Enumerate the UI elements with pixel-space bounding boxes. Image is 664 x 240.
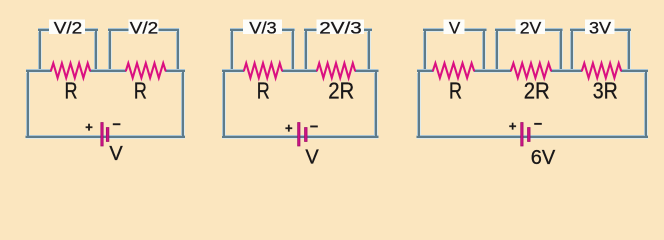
svg-text:V/2: V/2 xyxy=(54,18,83,37)
resistor R1 (circuit 1) xyxy=(51,63,90,78)
wire elbow C2 bracket2 left corner xyxy=(305,29,307,32)
label box V/3 xyxy=(243,20,282,35)
wire elbow C1 bracket2 right corner xyxy=(177,29,179,32)
wire: C2 top wire segment c xyxy=(355,69,379,73)
wire: C2 bracket2 right vertical xyxy=(367,28,371,73)
wire elbow C1 top-right xyxy=(182,70,184,73)
label box V/2 second xyxy=(129,20,159,35)
wire: C3 bracket2 top xyxy=(495,28,563,32)
svg-text:+: + xyxy=(509,118,517,133)
wire: C3 main loop left vertical xyxy=(417,69,421,139)
svg-text:R: R xyxy=(449,78,462,104)
wire: C1 top wire segment c xyxy=(166,69,186,73)
wire: C1 bracket2 left vertical xyxy=(108,28,112,73)
svg-text:V: V xyxy=(449,18,461,37)
wire: C1 bracket1 top xyxy=(38,28,98,32)
wire: C1 top wire segment a xyxy=(26,69,52,73)
wire elbow C2 top-right xyxy=(375,70,377,73)
wire elbow C3 bracket1 left corner xyxy=(424,29,426,32)
wire: C1 bottom wire xyxy=(26,135,186,139)
wire elbow C1 bracket1 left corner xyxy=(39,29,41,32)
wire elbow C3 bottom-left xyxy=(418,135,420,138)
wire elbow C3 bracket3 right corner xyxy=(628,29,630,32)
battery 6V (circuit 3) long plate xyxy=(521,123,523,147)
label box 2V/3 xyxy=(317,20,365,35)
wire: C3 top wire segment b xyxy=(474,69,511,73)
wire elbow C3 bracket2 left corner xyxy=(496,29,498,32)
wire: C1 main loop left vertical xyxy=(26,69,30,139)
wire: C2 top wire segment a xyxy=(222,69,244,73)
wire: C3 top wire segment d xyxy=(621,69,648,73)
wire: C3 top wire segment c xyxy=(551,69,582,73)
wire elbow C2 bracket1 left corner xyxy=(231,29,233,32)
battery V (circuit 2) short plate xyxy=(305,128,308,142)
wire elbow C1 bottom-right xyxy=(182,135,184,138)
wire: C2 bottom wire xyxy=(222,135,379,139)
resistor R (circuit 2) xyxy=(244,63,282,78)
wire elbow C1 top-left xyxy=(27,70,29,73)
resistor 3R (circuit 3) xyxy=(582,63,621,78)
wire elbow C3 top-right xyxy=(645,70,647,73)
wire: C3 bottom wire xyxy=(417,135,649,139)
svg-text:V: V xyxy=(109,143,123,165)
battery minus sign (circuit 2) xyxy=(310,126,318,128)
svg-text:+: + xyxy=(285,120,293,135)
wire: C1 bracket2 top xyxy=(108,28,179,32)
battery minus sign (circuit 3) xyxy=(534,123,542,125)
wire elbow C2 top-left xyxy=(223,70,225,73)
label box V/2 first xyxy=(49,20,85,35)
svg-text:R: R xyxy=(257,78,270,104)
wire: C2 bracket1 left vertical xyxy=(230,28,234,73)
wire: C2 bracket2 left vertical xyxy=(304,28,308,73)
wire elbow C3 bottom-right xyxy=(645,135,647,138)
svg-text:2R: 2R xyxy=(524,78,550,104)
battery minus sign (circuit 1) xyxy=(113,123,121,125)
label box 2V xyxy=(516,20,546,35)
wire: C1 bracket2 right vertical xyxy=(176,28,180,73)
wire elbow C3 bracket3 left corner xyxy=(571,29,573,32)
wire: C2 bracket2 top xyxy=(304,28,372,32)
wire: C1 top wire segment b xyxy=(90,69,126,73)
wire: C2 main loop left vertical xyxy=(222,69,226,139)
svg-text:V: V xyxy=(305,147,319,169)
wire: C3 bracket3 left vertical xyxy=(570,28,574,73)
wire elbow C1 bracket2 left corner xyxy=(109,29,111,32)
wire: C3 bracket1 left vertical xyxy=(423,28,427,73)
resistor 2R (circuit 2) xyxy=(317,63,355,78)
resistor 2R (circuit 3) xyxy=(511,63,551,78)
wire: C2 top wire segment b xyxy=(282,69,317,73)
wire: C3 bracket2 left vertical xyxy=(495,28,499,73)
battery V (circuit 1) short plate xyxy=(106,128,109,142)
wire: C3 bracket3 top xyxy=(570,28,631,32)
wire elbow C1 bottom-left xyxy=(27,135,29,138)
svg-text:2V/3: 2V/3 xyxy=(319,18,362,37)
wire elbow C2 bracket1 right corner xyxy=(292,29,294,32)
svg-text:R: R xyxy=(134,78,147,104)
battery 6V (circuit 3) short plate xyxy=(528,128,531,142)
wire elbow C1 bracket1 right corner xyxy=(95,29,97,32)
wire: C2 bracket1 right vertical xyxy=(291,28,295,73)
wire: C3 bracket3 right vertical xyxy=(627,28,631,73)
wire: C1 bracket1 left vertical xyxy=(38,28,42,73)
label box 3V xyxy=(585,20,615,35)
wire: C3 bracket1 right vertical xyxy=(482,28,486,73)
wire elbow C2 bottom-left xyxy=(223,135,225,138)
svg-text:3V: 3V xyxy=(589,18,612,37)
svg-text:+: + xyxy=(85,119,93,134)
wire: C1 bracket1 right vertical xyxy=(94,28,98,73)
wire elbow C3 bracket2 right corner xyxy=(560,29,562,32)
svg-text:2V: 2V xyxy=(520,18,542,37)
wire: C3 bracket1 top xyxy=(423,28,487,32)
svg-text:3R: 3R xyxy=(593,78,618,104)
wire: C2 bracket1 top xyxy=(230,28,295,32)
battery V (circuit 2) long plate xyxy=(298,123,300,147)
svg-text:R: R xyxy=(65,78,78,104)
resistor R2 (circuit 1) xyxy=(126,63,166,78)
wire elbow C2 bottom-right xyxy=(375,135,377,138)
wire elbow C3 top-left xyxy=(418,70,420,73)
wire: C3 main loop right vertical xyxy=(644,69,648,139)
wire: C1 main loop right vertical xyxy=(181,69,185,139)
resistor R (circuit 3) xyxy=(433,63,474,78)
svg-text:V/2: V/2 xyxy=(130,18,159,37)
wire: C2 main loop right vertical xyxy=(374,69,378,139)
wire elbow C3 bracket1 right corner xyxy=(483,29,485,32)
label box V xyxy=(444,20,465,35)
svg-text:2R: 2R xyxy=(328,78,354,104)
battery V (circuit 1) long plate xyxy=(101,123,103,147)
wire: C3 bracket2 right vertical xyxy=(559,28,563,73)
wire elbow C2 bracket2 right corner xyxy=(368,29,370,32)
svg-text:V/3: V/3 xyxy=(249,18,277,37)
wire: C3 top wire segment a xyxy=(417,69,434,73)
svg-text:6V: 6V xyxy=(531,147,556,169)
